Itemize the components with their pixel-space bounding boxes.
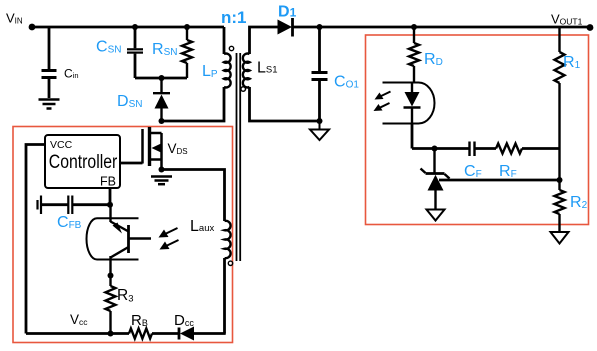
node secondary polarity dot — [241, 87, 246, 92]
node source junction — [159, 167, 165, 173]
wire FB lead — [109, 188, 112, 205]
wire LED to compensation node — [411, 124, 414, 149]
wire reference line — [439, 179, 560, 182]
inductor Laux winding — [225, 221, 231, 258]
wire snubber bottom bar — [135, 77, 187, 80]
transformer core — [237, 53, 241, 261]
wire gate lead — [120, 162, 143, 165]
diode opto LED — [404, 83, 421, 124]
capacitor CO1 — [312, 27, 328, 121]
node RD top junction — [411, 24, 417, 30]
node R3 top junction — [108, 273, 114, 279]
node VOUT1 terminal — [587, 24, 594, 31]
wire Vcc bottom rail — [26, 332, 129, 335]
resistor RB — [129, 329, 152, 339]
opto LED light arrows — [374, 92, 391, 112]
capacitor CF — [470, 142, 497, 157]
wire VCC to rail — [26, 145, 45, 334]
node snubber right junction — [184, 24, 190, 30]
resistor RD — [409, 27, 419, 83]
diode D1 — [278, 18, 293, 37]
opto-coupler phototransistor housing — [87, 218, 139, 259]
ground (mosfet source) — [151, 177, 172, 185]
capacitor CFB — [38, 196, 111, 215]
node snubber bottom junction — [159, 75, 165, 81]
inductor LP primary winding — [224, 54, 231, 88]
svg-text:Controller: Controller — [49, 152, 118, 173]
node snubber left junction — [132, 24, 138, 30]
diode DSN — [153, 78, 170, 121]
wire RB to Dcc — [152, 332, 180, 335]
mosfet Q1 — [143, 127, 162, 170]
node secondary ground junction — [317, 118, 323, 124]
red box feedback network — [366, 35, 589, 225]
inductor LS1 secondary winding — [243, 54, 250, 88]
resistor RSN — [182, 27, 192, 78]
opto transistor light arrows — [159, 228, 179, 250]
node primary polarity dot — [229, 46, 233, 50]
wire Dcc to aux lead — [194, 332, 226, 335]
wire output rail — [293, 26, 591, 29]
wire drain to primary bottom — [162, 87, 225, 121]
resistor R3 — [106, 276, 116, 334]
svg-text:VCC: VCC — [50, 139, 73, 151]
shunt regulator U3 (zener) — [421, 149, 450, 210]
capacitor Cin — [42, 27, 57, 98]
transistor Q2 phototransistor — [111, 205, 152, 276]
node R3 bottom junction — [108, 331, 114, 337]
controller U1 box — [45, 135, 120, 188]
wire primary top lead — [223, 27, 226, 54]
ground (shunt regulator, open triangle) — [427, 210, 445, 221]
svg-text:D1: D1 — [278, 4, 297, 21]
wire secondary top lead — [250, 27, 278, 54]
node drain junction — [159, 118, 165, 124]
resistor R2 — [555, 190, 565, 232]
node divider junction — [557, 177, 563, 183]
red box controller section — [13, 127, 233, 343]
node FB junction — [107, 202, 113, 208]
capacitor CSN — [127, 27, 143, 78]
wire source to aux winding — [162, 170, 225, 222]
ground (secondary, open triangle) — [310, 121, 329, 140]
diode Dcc — [179, 327, 194, 341]
svg-text:FB: FB — [100, 174, 116, 188]
node aux polarity dot — [228, 261, 232, 265]
resistor RF — [496, 144, 560, 154]
opto-coupler U2 LED housing — [383, 83, 435, 124]
node CO1 top junction — [317, 24, 323, 30]
wire secondary bottom lead — [250, 87, 320, 121]
wire aux bottom lead — [223, 258, 226, 334]
ground (R2, open triangle) — [551, 232, 569, 244]
node TL431 cathode junction — [432, 146, 438, 152]
resistor R1 — [555, 27, 565, 190]
wire top input rail — [32, 26, 224, 29]
ground (Cin) — [39, 100, 60, 109]
node VIN terminal — [29, 24, 36, 31]
svg-text:n:1: n:1 — [221, 8, 247, 27]
